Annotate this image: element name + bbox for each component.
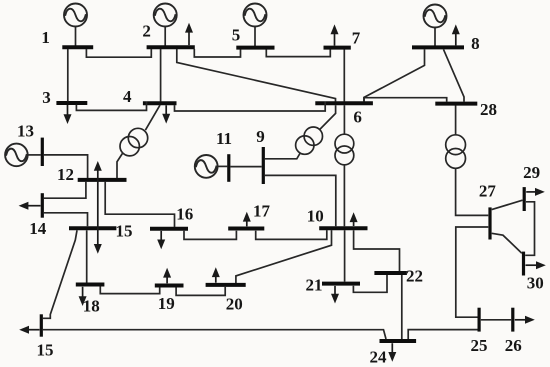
wire line 23-24 (long bottom line): [43, 330, 386, 339]
wire line 2-5: [194, 49, 240, 57]
wire line 5-7: [266, 50, 330, 57]
wire line 6-28: [364, 98, 447, 102]
wire line 12-16: [105, 182, 174, 227]
wire line 14-15: [44, 213, 88, 227]
load arrow up at bus 12 (head of double arrow line): [94, 161, 102, 171]
load arrow down at bus 15 (head of double arrow line): [94, 244, 102, 254]
bus 13 (vertical): [41, 138, 44, 166]
wire line 10-20 (diagonal): [236, 230, 332, 283]
load arrow right at bus 29: [526, 188, 545, 196]
wire line 22-24: [401, 275, 403, 339]
load arrow left at bus 23: [19, 326, 39, 334]
svg-text:27: 27: [479, 181, 497, 200]
transformer T28-27: [446, 135, 466, 169]
generator G1 at bus 1: [64, 4, 87, 46]
wire line 11-9: [230, 166, 261, 168]
wire bus28 to transformer T28-27: [455, 106, 457, 135]
bus 11 (vertical): [227, 154, 230, 182]
svg-text:4: 4: [123, 87, 132, 106]
bus 1: [62, 45, 93, 49]
load arrow right at bus 26: [515, 316, 535, 324]
bus 3: [56, 101, 87, 105]
wire line 27-25: [456, 227, 489, 317]
load arrow right at bus 30: [526, 261, 546, 269]
svg-text:6: 6: [353, 108, 362, 127]
svg-text:19: 19: [158, 294, 175, 313]
wire line 21-22: [353, 275, 387, 292]
svg-text:3: 3: [42, 88, 51, 107]
wire line 27-30 (diagonal): [492, 233, 522, 253]
bus 27 (vertical): [488, 207, 491, 239]
svg-text:15: 15: [116, 222, 133, 241]
bus 26 (vertical): [511, 308, 514, 332]
bus 18: [76, 283, 105, 287]
svg-text:10: 10: [307, 207, 324, 226]
svg-text:28: 28: [480, 100, 497, 119]
svg-text:2: 2: [142, 22, 151, 41]
svg-text:13: 13: [17, 122, 34, 141]
wire line 10-21: [344, 230, 346, 281]
bus 22: [374, 271, 407, 275]
bus 6: [315, 101, 373, 105]
svg-text:9: 9: [256, 127, 265, 146]
wire line 4-6: [175, 102, 326, 112]
load arrow down at bus 16: [157, 231, 165, 249]
bus 19: [155, 284, 184, 288]
wire line 7-6: [343, 50, 345, 102]
bus 15: [69, 226, 116, 230]
generator G5 at bus 5: [244, 4, 267, 47]
svg-text:20: 20: [226, 295, 243, 314]
wire line 12-15 (double arrow line): [97, 169, 99, 246]
generator G11 at bus 11: [195, 155, 228, 178]
bus 7: [324, 46, 351, 50]
svg-text:30: 30: [527, 273, 544, 292]
transformer T6-9: [296, 127, 323, 154]
wire line 1-3: [67, 49, 69, 101]
bus 23 labeled 15 (vertical, bottom-left): [40, 314, 43, 336]
bus 10: [319, 226, 367, 230]
wire line 2-6 (diagonal): [177, 49, 336, 102]
svg-text:1: 1: [41, 28, 50, 47]
bus 2: [147, 45, 195, 49]
svg-text:7: 7: [352, 29, 361, 48]
wire line 24-25: [408, 330, 477, 339]
wire line 16-17-10: [184, 230, 327, 239]
svg-text:25: 25: [471, 336, 488, 355]
wire line 9-10: [265, 175, 336, 226]
wire transformer T28-27 to bus 27: [456, 168, 489, 215]
wire bus6 to transformer T6-9: [320, 105, 336, 129]
generator G8 at bus 8: [424, 5, 447, 46]
svg-text:16: 16: [176, 204, 193, 223]
svg-text:12: 12: [57, 165, 74, 184]
load arrow down at bus 3: [64, 105, 72, 124]
load arrow left at bus 14: [19, 202, 41, 210]
load arrow up at bus 20: [212, 267, 220, 282]
load arrow down at bus 18: [79, 287, 87, 306]
bus 16: [150, 227, 188, 231]
wire line 13-12: [44, 155, 88, 178]
wire bus4 to transformer T4-12: [145, 105, 160, 130]
bus 21: [322, 282, 360, 286]
wire line 15-18: [86, 230, 88, 282]
svg-text:26: 26: [505, 336, 522, 355]
load arrow up at bus 8: [452, 24, 460, 45]
svg-text:15: 15: [37, 340, 54, 359]
svg-text:24: 24: [370, 348, 388, 367]
wire line 12-14: [44, 182, 86, 198]
wire bus6 to transformer T6-10: [343, 105, 345, 134]
bus 20: [206, 283, 246, 287]
svg-text:5: 5: [232, 25, 241, 44]
transformer T6-10: [335, 134, 354, 165]
bus 29 (vertical): [523, 187, 526, 211]
svg-text:8: 8: [471, 34, 480, 53]
bus 4: [143, 101, 177, 105]
wire transformer T6-10 to bus 10: [343, 165, 345, 227]
generator G13 at bus 13: [5, 144, 41, 167]
wire line 3-4: [76, 102, 146, 111]
load arrow up at bus 7: [331, 24, 339, 45]
wire line 25-26: [481, 319, 511, 321]
bus 25 (vertical): [478, 308, 481, 332]
wire line 15-23 (diagonal): [43, 230, 77, 318]
load arrow up at bus 17: [243, 212, 251, 227]
svg-text:18: 18: [83, 297, 100, 316]
wire line 8-6 (diagonal): [364, 49, 425, 101]
wire line 8-28 (diagonal): [444, 49, 465, 101]
wire line 27-29 (diagonal): [492, 200, 523, 209]
load arrow down at bus 4: [162, 105, 170, 123]
wire line 2-4: [160, 49, 162, 102]
load arrow up at bus 2: [185, 23, 193, 45]
bus 12: [78, 178, 127, 182]
bus 24: [380, 339, 417, 343]
svg-text:22: 22: [406, 267, 423, 286]
load arrow down at bus 24: [388, 343, 396, 362]
wire transformer T4-12 to bus 12: [117, 154, 122, 179]
load arrow up at bus 19: [163, 268, 171, 284]
wire line 29-30: [525, 202, 534, 256]
bus 14 (vertical): [41, 193, 44, 218]
bus 9 (vertical): [262, 147, 265, 184]
generator G2 at bus 2: [154, 4, 177, 46]
bus 30 (vertical): [522, 252, 525, 276]
wire line 18-19: [100, 286, 159, 293]
bus 17: [228, 227, 264, 231]
wire bus9 to transformer T6-9: [265, 153, 300, 159]
svg-text:11: 11: [216, 129, 232, 148]
svg-text:29: 29: [523, 163, 540, 182]
transformer T4-12: [120, 128, 148, 156]
bus 5: [236, 46, 274, 50]
svg-text:21: 21: [306, 276, 323, 295]
wire line 1-2: [86, 49, 151, 57]
svg-text:17: 17: [253, 202, 271, 221]
bus 28: [435, 102, 477, 106]
load arrow up at bus 10: [350, 212, 358, 226]
svg-text:14: 14: [29, 219, 47, 238]
bus 8: [412, 45, 464, 49]
wire line 10-22: [354, 230, 400, 271]
wire line 19-20: [176, 287, 225, 296]
load arrow down at bus 21: [331, 286, 339, 304]
